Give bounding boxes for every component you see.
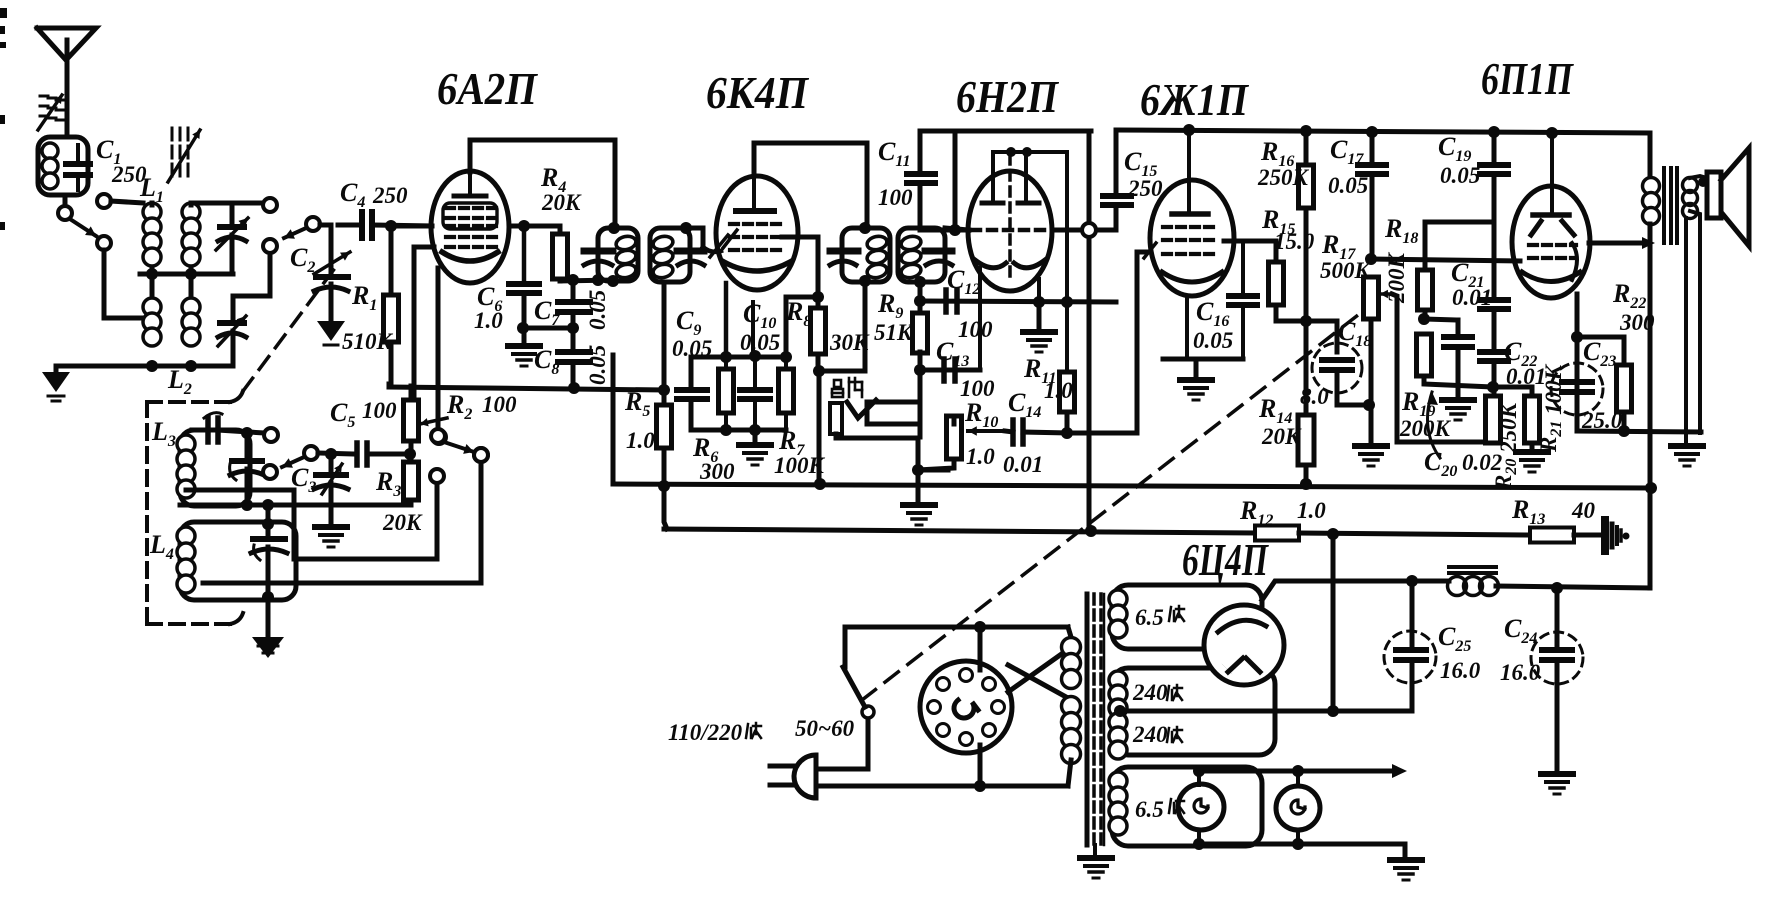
capacitor C9: [689, 357, 694, 390]
wire 6K4P cathode stems: [724, 283, 729, 357]
link to IF2 primary + B+ rail: [818, 369, 865, 374]
wire bottom rail: [691, 428, 786, 433]
6Zh1P cathode: [1185, 296, 1189, 359]
IF2 transformer primary: [842, 228, 890, 282]
svg-text:250: 250: [372, 183, 408, 208]
gang dashed line power switch to R17: [862, 315, 1358, 700]
capacitor C11: [918, 131, 923, 174]
svg-text:0.01: 0.01: [1003, 452, 1043, 477]
svg-text:100: 100: [362, 398, 397, 423]
ground at 6N2P cathode: [1037, 302, 1042, 330]
L1 trimmer cap: [230, 203, 235, 222]
resistor R4: [509, 224, 560, 229]
grid2/plate line right: [1052, 228, 1116, 233]
svg-text:51K: 51K: [874, 320, 914, 345]
svg-text:16.0: 16.0: [1500, 660, 1541, 685]
capacitor C20: [1424, 319, 1458, 320]
cathode bottom line: [1577, 431, 1701, 432]
speaker voice coil: [1683, 178, 1698, 193]
capacitor C23: [1551, 363, 1603, 415]
chassis ground: [1601, 520, 1609, 551]
svg-text:250K: 250K: [1257, 165, 1310, 190]
band switch to C4: [306, 217, 320, 231]
svg-text:0.05: 0.05: [1440, 163, 1480, 188]
L2 coils: [143, 298, 161, 316]
svg-text:20K: 20K: [382, 510, 423, 535]
svg-text:510K: 510K: [342, 329, 394, 354]
R4 bottom line to IF1: [560, 280, 613, 281]
IF1 transformer primary: [598, 228, 638, 281]
tube name labels: [437, 53, 1574, 585]
B+ bus1 y486: [613, 484, 1651, 488]
svg-text:110/220: 110/220: [668, 720, 743, 745]
svg-text:6Ж1П: 6Ж1П: [1140, 74, 1249, 125]
edge specks: [0, 8, 7, 18]
svg-text:20K: 20K: [1261, 424, 1302, 449]
capacitor C21: [1480, 297, 1508, 303]
resistor R7: [779, 369, 794, 413]
socket bottom pin wire: [978, 745, 983, 786]
tube 6Zh1P: [1150, 180, 1234, 296]
svg-text:240: 240: [1132, 680, 1168, 705]
svg-text:40: 40: [1571, 498, 1596, 523]
top wire to IF2: [754, 143, 867, 228]
svg-text:1.0: 1.0: [474, 308, 503, 333]
svg-text:20K: 20K: [541, 190, 582, 215]
phono jack: [830, 403, 842, 434]
capacitor C19: [1492, 132, 1497, 165]
wire from R12 node down: [1331, 534, 1336, 711]
R2 wiper: [420, 418, 447, 424]
capacitor C16: [1241, 241, 1245, 296]
potentiometer R10: [947, 416, 962, 459]
svg-text:240: 240: [1132, 722, 1168, 747]
wire to 6Zh1P grid: [1067, 252, 1148, 433]
transformer primary coils: [1068, 627, 1071, 637]
rectifier output line: [1262, 581, 1449, 600]
choke: [1449, 565, 1496, 569]
socket top pin wire: [978, 627, 983, 670]
cathode line y302: [920, 301, 1116, 302]
L2 trimmer cap: [231, 296, 236, 318]
capacitor C25: [1384, 631, 1436, 683]
antenna: [37, 28, 96, 60]
svg-text:200K: 200K: [1384, 252, 1409, 305]
phono jack label: [832, 378, 862, 397]
resistor R3: [404, 462, 419, 500]
L3 series cap: [192, 428, 205, 433]
svg-text:0.05: 0.05: [585, 290, 610, 330]
svg-text:16.0: 16.0: [1440, 658, 1481, 683]
bottom wire from plug: [816, 784, 1068, 789]
resistor R13: [1530, 528, 1574, 543]
tube 6A2P: [431, 171, 509, 283]
C2 wire to L2: [233, 250, 270, 296]
L2 bottom row + ground: [56, 364, 233, 369]
resistor R22: [1577, 335, 1624, 340]
socket: [920, 661, 1012, 753]
winding1 6.5V: [1112, 585, 1262, 649]
svg-text:0.01: 0.01: [1452, 285, 1492, 310]
gang dashed line C2 to L3 box: [243, 268, 335, 391]
power plug: [794, 755, 816, 798]
bus2 y531: [662, 390, 667, 405]
capacitor C18: [1335, 321, 1340, 352]
capacitor C7: [571, 280, 576, 302]
transformer core: [1085, 594, 1090, 845]
L1/L2 junction row: [140, 272, 233, 277]
wire cathode rail: [691, 355, 786, 360]
resistor R20: [1486, 396, 1501, 443]
capacitor C13: [978, 268, 982, 370]
svg-text:250: 250: [1127, 176, 1163, 201]
capacitor C24: [1531, 632, 1583, 684]
core adjust mark: [171, 128, 174, 140]
dashed box around L3 L4: [145, 402, 149, 624]
ground: [753, 430, 758, 443]
svg-text:6Ц4П: 6Ц4П: [1182, 534, 1269, 585]
svg-text:100: 100: [878, 185, 913, 210]
ground under L4: [266, 600, 271, 637]
wire tube grid3 to switch: [436, 270, 441, 430]
resistor R8: [782, 237, 818, 297]
L1 coils: [143, 203, 161, 221]
switch wire to L2: [102, 250, 107, 318]
capacitor C14: [1005, 431, 1013, 432]
IF1 secondary to R5 node: [662, 282, 667, 390]
wires tube left to R2 and switch: [414, 247, 434, 400]
svg-text:8.0: 8.0: [1300, 384, 1329, 409]
svg-text:0.05: 0.05: [672, 336, 712, 361]
grid wire to 6K4P: [690, 228, 703, 247]
svg-text:6К4П: 6К4П: [706, 67, 809, 118]
variable capacitor C2: [329, 225, 334, 272]
winding2 240V: [1112, 668, 1275, 755]
svg-text:6.5: 6.5: [1135, 605, 1164, 630]
svg-text:0.05: 0.05: [585, 345, 610, 385]
6A2P internals: [468, 172, 472, 196]
svg-text:0.05: 0.05: [740, 330, 780, 355]
tube 6C4P rectifier: [1204, 605, 1284, 685]
lamp bottom line: [1199, 842, 1405, 847]
resistor R16: [1304, 131, 1309, 165]
antenna coil + capacitor C1: [38, 137, 88, 195]
svg-text:100: 100: [958, 317, 993, 342]
winding3 6.5V lamps: [1112, 767, 1262, 846]
L3 coil: [180, 430, 250, 506]
svg-text:6П1П: 6П1П: [1481, 53, 1574, 104]
grid wire C4 to tube: [391, 224, 432, 229]
wire C11 top to 6N2P box: [920, 129, 955, 134]
tube 6N2P: [968, 171, 1052, 291]
resistor R6: [719, 369, 734, 413]
IF1 transformer secondary: [650, 228, 690, 282]
capacitor C4: [338, 223, 362, 228]
svg-text:200K: 200K: [1399, 416, 1452, 441]
potentiometer R17: [1365, 253, 1377, 265]
speaker: [1707, 172, 1721, 218]
switch line to L4 bottom: [203, 581, 481, 586]
resistor R11: [1060, 372, 1075, 412]
trimmer capacitor C3: [329, 454, 334, 472]
svg-text:500K: 500K: [1320, 258, 1372, 283]
potentiometer R2: [404, 400, 419, 441]
grid line: [1371, 259, 1520, 261]
wire from L3 to band switch terminal: [292, 490, 297, 559]
capacitor C22: [1480, 349, 1508, 355]
tube 6P1P: [1512, 186, 1590, 298]
6P1P cathode: [1575, 294, 1580, 431]
plate to OT: [1589, 241, 1642, 246]
resistor R15: [1224, 239, 1276, 244]
svg-text:6.5: 6.5: [1135, 797, 1164, 822]
lamp top line with arrow: [1199, 769, 1392, 774]
center tap line: [1118, 709, 1333, 714]
L3 bottom line to R3: [186, 488, 294, 493]
capacitor C10: [753, 356, 757, 390]
grid slash: [723, 230, 737, 248]
L4 trimmer cap: [266, 505, 271, 536]
svg-text:100: 100: [482, 392, 517, 417]
capacitor C12: [943, 290, 949, 312]
resistor R21: [1525, 396, 1540, 443]
resistor R12: [1255, 526, 1299, 541]
resistor R5: [657, 405, 672, 448]
antenna switch: [63, 195, 68, 206]
output transformer: [1648, 133, 1653, 178]
IF2 transformer secondary: [898, 228, 945, 282]
tube 6K4P: [716, 176, 798, 290]
6K4P internals: [752, 176, 756, 208]
svg-text:1.0: 1.0: [1044, 378, 1073, 403]
capacitor C15: [1114, 130, 1119, 196]
capacitor C8: [558, 349, 590, 355]
L3 trimmer: [245, 433, 250, 457]
6N2P top box: [955, 129, 1091, 134]
IF2 secondary bottom to R9: [918, 282, 923, 313]
antenna adjust mark: [40, 95, 48, 98]
resistor R19: [1417, 334, 1432, 376]
ground under phono: [916, 470, 921, 503]
svg-text:1.0: 1.0: [966, 444, 995, 469]
top B+ bus: [1116, 130, 1650, 133]
6N2P internals: [1008, 155, 1012, 276]
svg-text:300: 300: [699, 459, 735, 484]
capacitor C6: [518, 220, 530, 232]
svg-text:50~60: 50~60: [795, 716, 855, 741]
svg-text:6А2П: 6А2П: [437, 63, 538, 114]
svg-text:0.05: 0.05: [1193, 328, 1233, 353]
svg-text:1.0: 1.0: [626, 428, 655, 453]
svg-text:1.0: 1.0: [1297, 498, 1326, 523]
resistor R14: [1298, 415, 1314, 465]
L4 coil: [180, 522, 296, 600]
capacitor C5 line: [304, 446, 318, 460]
svg-text:15.0: 15.0: [1274, 229, 1315, 254]
switch to transformer: [816, 718, 868, 769]
pilot lamps: [1197, 771, 1201, 785]
svg-text:0.05: 0.05: [1328, 173, 1368, 198]
resistor R9: [913, 313, 928, 353]
svg-text:6Н2П: 6Н2П: [956, 71, 1059, 122]
capacitor C17: [1370, 132, 1375, 165]
X cross wires to primary: [1008, 643, 1077, 692]
AGC bus y=387: [387, 384, 392, 387]
R15 bottom line: [1276, 319, 1337, 324]
grid1 line from IF2: [920, 228, 968, 233]
resistor R1: [389, 226, 394, 295]
top wire to IF1: [470, 140, 615, 226]
